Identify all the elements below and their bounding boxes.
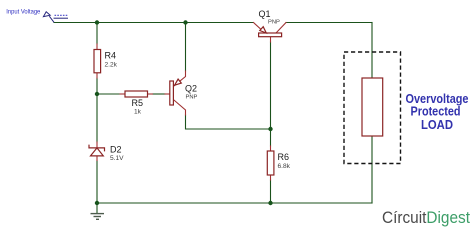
svg-text:Q1: Q1: [259, 9, 271, 19]
svg-text:Q2: Q2: [185, 84, 197, 94]
svg-text:PNP: PNP: [186, 94, 198, 100]
svg-text:Input Voltage: Input Voltage: [6, 8, 40, 15]
svg-text:CírcuitDigest: CírcuitDigest: [382, 209, 470, 227]
svg-text:6.8k: 6.8k: [278, 163, 291, 170]
svg-text:R4: R4: [105, 50, 117, 60]
svg-text:PNP: PNP: [268, 20, 280, 26]
svg-text:5.1V: 5.1V: [110, 155, 124, 162]
svg-text:R6: R6: [278, 152, 290, 162]
svg-text:R5: R5: [132, 98, 144, 108]
svg-text:LOAD: LOAD: [421, 118, 453, 132]
svg-text:Protected: Protected: [411, 105, 461, 119]
svg-text:D2: D2: [110, 144, 122, 154]
svg-text:2.2k: 2.2k: [105, 62, 118, 69]
svg-text:1k: 1k: [134, 109, 142, 116]
